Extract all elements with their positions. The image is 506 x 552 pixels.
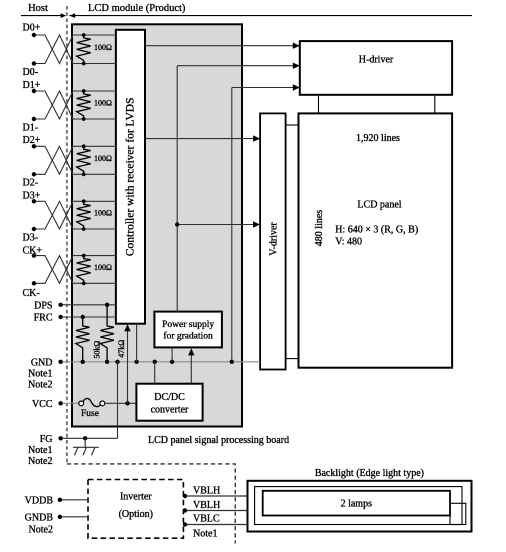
svg-text:D0-: D0- <box>23 67 39 78</box>
wire power supply bottom to GND <box>171 347 173 361</box>
resistor R1 100ohm termination <box>77 33 91 65</box>
power supply for gradation box <box>154 312 222 348</box>
svg-text:DPS: DPS <box>34 300 52 311</box>
wire VBLC <box>183 522 255 526</box>
svg-text:100Ω: 100Ω <box>94 154 112 163</box>
GND wire <box>61 361 261 363</box>
controller with receiver for LVDS box <box>116 30 145 324</box>
svg-text:VBLC: VBLC <box>193 513 220 524</box>
svg-text:D1+: D1+ <box>23 80 41 91</box>
wire GNDB to inverter <box>58 515 88 519</box>
svg-text:converter: converter <box>151 405 189 416</box>
V-driver to panel connector top <box>286 124 299 126</box>
wire VDDB to inverter <box>58 498 88 502</box>
resistor 47kohm <box>100 305 114 362</box>
resistor R4 100ohm termination <box>77 199 91 231</box>
svg-text:D0+: D0+ <box>23 23 41 34</box>
GND junction nodes <box>81 360 235 364</box>
svg-text:Note1: Note1 <box>28 369 52 380</box>
dimension line LCD module with left arrow <box>69 13 472 18</box>
resistor R5 100ohm termination <box>77 254 91 285</box>
dashed boundary bottom <box>67 464 235 544</box>
wire controller GND stub <box>136 324 138 362</box>
wire VCC riser arrow into controller <box>124 324 130 403</box>
svg-text:LCD panel signal processing bo: LCD panel signal processing board <box>148 435 289 446</box>
resistor R2 100ohm termination <box>77 89 91 121</box>
svg-text:Note2: Note2 <box>28 380 52 391</box>
svg-text:LCD module (Product): LCD module (Product) <box>88 3 186 14</box>
resistor R3 100ohm termination <box>77 144 91 176</box>
chassis ground symbol <box>73 438 99 455</box>
wire power-supply riser to H-driver 2 <box>177 63 300 69</box>
svg-text:(Option): (Option) <box>119 509 153 520</box>
svg-text:100Ω: 100Ω <box>94 209 112 218</box>
svg-text:H-driver: H-driver <box>359 55 394 66</box>
svg-text:100Ω: 100Ω <box>94 263 112 272</box>
svg-text:D2-: D2- <box>23 178 39 189</box>
svg-text:Note2: Note2 <box>29 524 53 535</box>
V-driver to panel connector bottom <box>286 358 299 360</box>
twisted pair wires D2+/D2- to controller <box>32 144 116 176</box>
wire DC/DC to power supply arrow <box>188 348 194 383</box>
svg-text:FG: FG <box>40 434 53 445</box>
wire controller to V-driver 1 <box>145 135 260 141</box>
twisted pair wires D1+/D1- to controller <box>32 89 116 121</box>
svg-text:47kΩ: 47kΩ <box>117 340 126 358</box>
wire fuse to DC/DC <box>105 401 137 405</box>
wire FG <box>58 436 117 440</box>
svg-text:VCC: VCC <box>32 399 53 410</box>
backlight enclosure box <box>248 481 472 532</box>
svg-text:D3+: D3+ <box>23 191 41 202</box>
lamp return wire loop <box>450 503 466 524</box>
svg-text:DC/DC: DC/DC <box>154 392 185 403</box>
svg-text:D1-: D1- <box>23 123 39 134</box>
svg-text:VBLH: VBLH <box>193 500 220 511</box>
svg-text:2 lamps: 2 lamps <box>341 499 372 510</box>
riser wire H3 to GND <box>231 88 233 362</box>
svg-text:VDDB: VDDB <box>25 495 54 506</box>
inverter box (dashed) <box>88 480 183 539</box>
wire FRC to controller <box>58 315 116 319</box>
dimension line Host with right arrow <box>21 13 66 18</box>
svg-text:Note2: Note2 <box>28 456 52 467</box>
backlight inner wire loop <box>255 487 462 525</box>
svg-text:Host: Host <box>28 3 48 14</box>
svg-text:Fuse: Fuse <box>81 409 99 419</box>
svg-text:for gradation: for gradation <box>163 330 213 341</box>
svg-text:100Ω: 100Ω <box>94 43 112 52</box>
host boundary dashed line <box>66 6 68 464</box>
wire DPS to controller <box>58 303 116 307</box>
H-driver box <box>300 41 452 95</box>
svg-text:100Ω: 100Ω <box>94 99 112 108</box>
wire riser junction to V-driver 2 <box>177 221 260 227</box>
svg-text:V: 480: V: 480 <box>335 236 362 247</box>
LCD panel box <box>299 113 453 367</box>
svg-text:GNDB: GNDB <box>25 512 54 523</box>
svg-text:Backlight (Edge light type): Backlight (Edge light type) <box>315 468 424 479</box>
wire FG riser to GND <box>117 362 119 439</box>
LCD panel signal processing board (gray board) <box>72 24 242 426</box>
svg-text:FRC: FRC <box>34 313 53 324</box>
svg-text:480 lines: 480 lines <box>314 210 325 246</box>
svg-text:1,920 lines: 1,920 lines <box>356 133 400 144</box>
twisted pair wires CK+/CK- to controller <box>32 253 116 285</box>
svg-text:H: 640 × 3 (R, G, B): H: 640 × 3 (R, G, B) <box>335 225 418 236</box>
svg-text:D2+: D2+ <box>23 135 41 146</box>
wire GND riser to H-driver 3 <box>232 84 300 90</box>
svg-text:GND: GND <box>31 357 53 368</box>
svg-text:V-driver: V-driver <box>268 222 279 256</box>
fuse F1 <box>79 398 105 406</box>
V-driver box <box>260 113 286 369</box>
svg-text:CK-: CK- <box>23 288 40 299</box>
svg-text:VBLH: VBLH <box>193 485 220 496</box>
wire VBLH 2 <box>183 508 263 512</box>
svg-text:D3-: D3- <box>23 233 39 244</box>
2 lamps box <box>263 491 450 516</box>
twisted pair wires D0+/D0- to controller <box>32 33 116 66</box>
twisted pair wires D3+/D3- to controller <box>32 199 116 231</box>
junction node on riser <box>175 222 179 226</box>
svg-text:Note1: Note1 <box>193 529 217 540</box>
H-driver to panel connector left <box>318 96 320 114</box>
DC/DC converter box <box>136 384 202 421</box>
wire controller to H-driver 1 <box>145 43 300 49</box>
wire VBLH 1 <box>183 494 263 498</box>
GND terminal node <box>58 360 62 364</box>
svg-text:Power supply: Power supply <box>162 320 214 330</box>
svg-text:LCD panel: LCD panel <box>357 199 401 210</box>
wire VCC to fuse <box>58 401 79 405</box>
H-driver to panel connector right <box>434 96 436 114</box>
svg-text:Controller with receiver for L: Controller with receiver for LVDS <box>125 97 137 256</box>
svg-text:Note1: Note1 <box>28 445 52 456</box>
riser wire H2 to power supply top <box>176 66 178 312</box>
svg-text:Inverter: Inverter <box>120 491 152 502</box>
wire GND to DC/DC top <box>154 362 156 384</box>
resistor 50kohm <box>76 317 90 362</box>
